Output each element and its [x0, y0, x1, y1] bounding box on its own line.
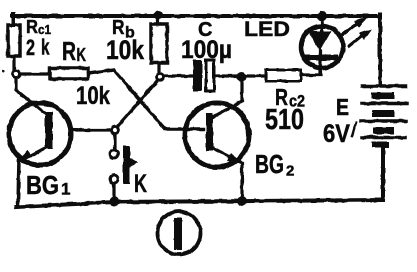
svg-text:100µ: 100µ [181, 36, 232, 64]
svg-text:BG: BG [26, 170, 59, 200]
junction dot Rb top [154, 11, 163, 20]
LED circle [301, 26, 343, 68]
resistor Rc1 [8, 25, 20, 56]
battery plate long 3 [361, 119, 406, 123]
switch K button bar [123, 146, 130, 184]
svg-text:E: E [336, 94, 349, 120]
svg-text:k: k [41, 35, 50, 60]
speck [2, 70, 5, 73]
wire bottom rail [16, 200, 382, 207]
resistor Rc2 [266, 70, 301, 81]
switch K button nub [130, 158, 138, 167]
battery plate long 1 [362, 84, 406, 88]
LED arrow 2 [349, 33, 365, 46]
svg-text:1: 1 [61, 180, 70, 199]
wire top rail [12, 14, 380, 18]
svg-text:R: R [62, 36, 76, 66]
battery plate long 4 [362, 136, 405, 140]
switch K contact top [110, 150, 118, 158]
figure number circle [158, 212, 201, 255]
battery plate short 4 [372, 142, 389, 148]
wire battery to bottom rail [381, 147, 385, 200]
transistor BG2 emitter arrow [227, 153, 243, 164]
svg-text:2: 2 [26, 35, 35, 60]
wire Rk to BG2 base (diagonal of cross) [88, 70, 203, 129]
transistor BG2 circle [185, 103, 249, 167]
figure number 1 bar [174, 218, 182, 250]
battery plate short 3 [373, 127, 394, 134]
battery plate long 2 [362, 102, 407, 106]
svg-text:R: R [26, 16, 38, 37]
transistor BG1 circle [9, 103, 71, 165]
resistor Rk [50, 68, 88, 79]
transistor BG1 emitter arrow [17, 150, 32, 161]
stray mark left of battery [352, 122, 356, 136]
transistor BG2 base bar [206, 113, 213, 151]
wire node B to capacitor [164, 74, 193, 77]
svg-text:10k: 10k [106, 35, 145, 65]
svg-text:BG: BG [255, 149, 284, 179]
wire BG1 emitter to rail [18, 158, 19, 205]
svg-text:510: 510 [265, 104, 304, 136]
wire rail to Rb [156, 15, 159, 24]
LED arrow 1 [343, 22, 359, 34]
junction dot LED top [317, 11, 327, 21]
svg-text:6V: 6V [323, 120, 350, 148]
wire rail to LED [320, 16, 323, 31]
LED cathode line [318, 51, 321, 68]
junction dot switch-ground [109, 196, 119, 206]
wire Rb to node B [157, 63, 160, 71]
wire right rail to battery [378, 14, 382, 85]
svg-text:K: K [77, 45, 87, 65]
wire node A to Rk [20, 72, 50, 75]
wire node B to BG1 base (diagonal of cross) [117, 80, 158, 127]
svg-text:K: K [134, 170, 147, 198]
wire BG1 base lead [70, 128, 111, 131]
transistor BG2 emitter lead [213, 148, 240, 162]
switch K contact bottom [110, 175, 118, 183]
transistor BG1 collector lead [16, 78, 47, 115]
wire switch to bottom rail [112, 183, 115, 198]
transistor BG1 emitter lead [22, 147, 47, 160]
svg-text:2: 2 [286, 163, 294, 180]
transistor BG2 collector lead [213, 77, 242, 117]
node C (BG1 base / switch top) [112, 127, 119, 134]
battery plate short 2 [372, 110, 394, 117]
transistor BG1 base bar [45, 112, 53, 149]
battery plate short 1 [371, 93, 394, 100]
wire capacitor to node D [216, 74, 238, 77]
capacitor C plate right [206, 60, 214, 91]
junction dot BG2-ground [237, 196, 247, 206]
wire Rc2 to LED [301, 66, 321, 75]
resistor Rb [151, 24, 167, 63]
svg-text:LED: LED [244, 18, 290, 41]
junction dot node D (C/Rc2/BG2 collector) [237, 72, 247, 82]
wire node C down to switch [113, 134, 116, 149]
wire BG2 emitter to rail [240, 164, 243, 199]
wire Rc1 to node [12, 56, 15, 70]
node B (Rb/C/cross) [157, 74, 164, 81]
wire node D to Rc2 [246, 74, 266, 77]
LED cathode bar [303, 55, 338, 61]
node A (Rc1/Rk/BG1 collector) [13, 71, 20, 78]
capacitor C plate left [193, 60, 202, 91]
wire left drop to Rc1 [11, 14, 15, 25]
svg-text:10k: 10k [76, 82, 110, 110]
LED triangle [308, 31, 331, 51]
